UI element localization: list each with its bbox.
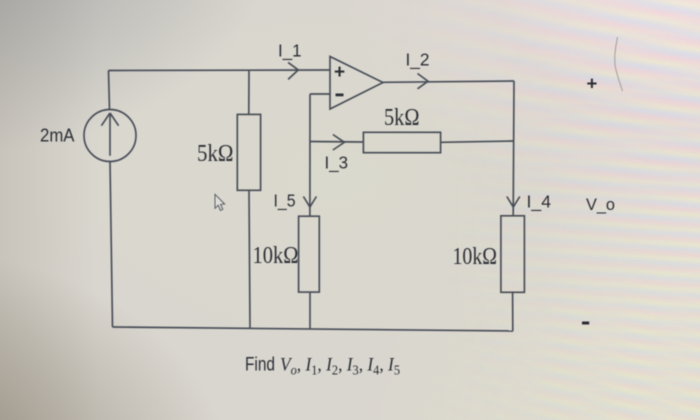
wire middle branch [309, 94, 311, 216]
svg-text:+: + [334, 62, 345, 83]
resistor R2 5k feedback [363, 132, 440, 152]
current arrow I_3 [333, 135, 345, 151]
scratch mark [615, 37, 623, 91]
label - output polarity [582, 322, 589, 325]
wire top [109, 69, 331, 72]
svg-text:V_o: V_o [586, 195, 615, 214]
svg-text:I_5: I_5 [274, 191, 296, 212]
svg-text:2mA: 2mA [40, 125, 75, 146]
current arrow I_1 [288, 62, 298, 79]
resistor R4 10k right [501, 216, 525, 292]
svg-text:5kΩ: 5kΩ [197, 140, 234, 167]
wire feedback right [441, 141, 514, 142]
svg-text:5kΩ: 5kΩ [384, 104, 420, 131]
wire left top [109, 71, 110, 110]
svg-text:I_3: I_3 [325, 153, 349, 174]
resistor R1 5k vertical [237, 114, 260, 190]
resistor R3 10k middle [299, 216, 320, 292]
op-amp U1 [330, 57, 383, 110]
wire below R3 [309, 292, 311, 329]
op-amp minus input symbol [336, 94, 344, 97]
svg-text:I_2: I_2 [406, 50, 430, 71]
current arrow I_2 [418, 74, 429, 89]
current arrow I_4 [507, 197, 520, 208]
current arrow I_5 [303, 197, 316, 208]
svg-text:10kΩ: 10kΩ [253, 242, 299, 269]
current source 2mA [84, 110, 136, 162]
wire left bottom [110, 162, 113, 328]
svg-text:+: + [587, 73, 598, 94]
wire R1 bottom lead [249, 190, 250, 328]
svg-text:10kΩ: 10kΩ [453, 243, 498, 270]
wire bottom [113, 327, 514, 331]
svg-text:Find: Find [245, 354, 275, 376]
wire R1 top lead [248, 70, 250, 114]
wire feedback left [310, 141, 363, 144]
mouse cursor [215, 194, 225, 210]
wire right vertical lower [512, 292, 514, 331]
wire inverting input [310, 93, 330, 95]
svg-text:I_1: I_1 [278, 41, 302, 62]
svg-text:I_4: I_4 [527, 192, 552, 213]
wire right vertical upper [512, 81, 515, 216]
svg-text:Vo, I1, I2, I3, I4, I5: Vo, I1, I2, I3, I4, I5 [280, 355, 400, 378]
wire output [383, 81, 514, 82]
